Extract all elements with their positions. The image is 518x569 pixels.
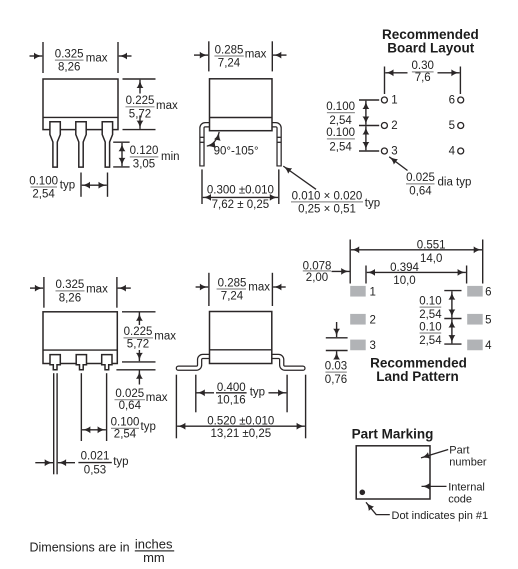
pad width arrow up <box>336 351 338 358</box>
svg-text:min: min <box>161 151 180 163</box>
foot protrusion extension line <box>116 369 155 371</box>
svg-text:0.551: 0.551 <box>417 239 446 251</box>
dimension 0.30/7,6 : extension lines <box>384 67 386 95</box>
svg-text:4: 4 <box>449 146 456 158</box>
svg-text:0.021: 0.021 <box>81 450 110 462</box>
package body side view <box>210 79 273 131</box>
svg-text:max: max <box>156 100 178 112</box>
dimension 0.300 value <box>207 184 274 211</box>
hole 6 <box>458 97 464 103</box>
label Internal code <box>448 481 485 505</box>
dimension 0.285/7,24 max : extension lines <box>208 41 210 71</box>
package base line <box>43 116 118 118</box>
svg-text:Land Pattern: Land Pattern <box>376 369 459 384</box>
svg-text:2,54: 2,54 <box>419 335 442 347</box>
dimension 0.325/8,26 max lower : extension lines <box>43 277 45 308</box>
svg-text:0.285: 0.285 <box>218 277 247 289</box>
svg-text:0.120: 0.120 <box>130 145 159 157</box>
svg-text:0.100: 0.100 <box>111 416 140 428</box>
dimension 0.285/7,24 max lower : value <box>217 277 271 302</box>
dimension 0.100/2,54 typ lower : value <box>111 416 156 440</box>
svg-text:10,16: 10,16 <box>217 394 246 406</box>
pad 6 <box>467 286 483 297</box>
svg-text:2,54: 2,54 <box>32 189 55 201</box>
dimension 0.30/7,6 : arrows <box>385 72 407 74</box>
dimension 0.078/2,00 : value <box>303 260 332 284</box>
package base line side <box>210 117 273 119</box>
svg-text:3: 3 <box>370 340 376 352</box>
dimension 0.394/10,0 : value <box>390 262 419 287</box>
dimension 0.285/7,24 max lower : extension lines <box>208 273 210 306</box>
svg-text:14,0: 14,0 <box>420 253 442 265</box>
dimension 0.300 +-0.010 : double arrow <box>203 196 278 198</box>
svg-text:2,54: 2,54 <box>329 115 352 127</box>
pin number labels left column <box>391 95 397 158</box>
pin 2 front <box>76 122 86 167</box>
svg-text:max: max <box>146 392 168 404</box>
lead cross-section callout 0.010 x 0.020 <box>291 190 380 215</box>
svg-text:typ: typ <box>365 198 380 210</box>
svg-text:Part: Part <box>449 445 469 457</box>
dimension 0.225/5,72 max lower : value <box>124 326 177 350</box>
svg-text:0.100: 0.100 <box>29 175 58 187</box>
pad width tick lines left <box>326 338 348 351</box>
lead angle arc 90-105 <box>207 132 219 146</box>
dimension 0.225/5,72 max : value <box>126 95 178 120</box>
hole 5 <box>458 123 464 129</box>
dimension 0.021/0,53 typ : value <box>78 450 128 476</box>
dimension 0.120/3,05 min : double arrow <box>121 143 123 166</box>
right gull-wing lead band <box>270 356 303 368</box>
dimension 0.520 +-0.010 : double arrow <box>177 425 305 427</box>
svg-text:5,72: 5,72 <box>129 108 151 120</box>
dimension 0.325/8,26 max lower : value <box>56 279 109 304</box>
svg-text:0,25 × 0,51: 0,25 × 0,51 <box>298 204 356 216</box>
hole diameter callout 0.025/0,64 dia typ <box>406 172 471 197</box>
svg-text:Board Layout: Board Layout <box>387 41 475 56</box>
svg-text:1: 1 <box>370 286 376 298</box>
svg-text:0,64: 0,64 <box>119 400 142 412</box>
svg-text:Internal: Internal <box>448 481 485 493</box>
svg-text:0.325: 0.325 <box>56 279 85 291</box>
svg-text:max: max <box>154 330 176 342</box>
package base line side lower <box>210 349 272 351</box>
pad 3 <box>350 340 366 351</box>
svg-text:Dot indicates pin #1: Dot indicates pin #1 <box>392 510 489 522</box>
svg-text:Part Marking: Part Marking <box>352 426 434 441</box>
dimension 0.520 +-0.010 : extension lines <box>175 375 177 439</box>
svg-text:8,26: 8,26 <box>58 62 80 74</box>
left gull-wing lead band <box>178 356 211 368</box>
dimension 0.100/2,54 stack <box>326 101 355 154</box>
leader arrow to dot <box>366 502 390 514</box>
svg-text:0.285: 0.285 <box>215 44 244 56</box>
dimension 0.400/10,16 typ : value <box>216 382 265 406</box>
pin 3 stub with foot <box>102 355 112 370</box>
package body front view lower <box>43 312 117 364</box>
svg-text:0.325: 0.325 <box>55 48 84 60</box>
pad pitch tick lines right <box>444 291 461 345</box>
dimension 0.100/2,54 typ : extension lines <box>80 173 82 197</box>
dimension 0.325/8,26 max : arrows <box>30 55 43 57</box>
svg-text:3: 3 <box>391 146 397 158</box>
svg-text:0.30: 0.30 <box>412 60 434 72</box>
pad width arrow down <box>336 322 338 337</box>
svg-text:0.025: 0.025 <box>406 172 435 184</box>
svg-text:code: code <box>448 493 472 505</box>
pin 2 center extension line <box>80 373 82 441</box>
svg-text:8,26: 8,26 <box>59 292 81 304</box>
package base line lower <box>43 349 117 351</box>
svg-text:typ: typ <box>250 387 265 399</box>
svg-text:0,64: 0,64 <box>409 185 432 197</box>
svg-text:0.100: 0.100 <box>326 101 355 113</box>
dimension 0.225/5,72 max lower : extension lines <box>122 311 156 313</box>
dimension 0.225/5,72 max lower : arrows <box>138 313 140 326</box>
svg-text:0.225: 0.225 <box>124 326 153 338</box>
svg-text:7,62 ± 0,25: 7,62 ± 0,25 <box>212 199 269 211</box>
dimension 0.285/7,24 max : arrows <box>194 54 208 56</box>
dimension 0.400/10,16 typ : extension lines <box>195 375 197 413</box>
svg-text:6: 6 <box>485 286 491 298</box>
label Part number <box>449 445 487 469</box>
svg-text:0.225: 0.225 <box>126 95 155 107</box>
leader arrow internal code <box>422 485 447 487</box>
hole 3 <box>381 148 387 154</box>
dimension 0.025/0,64 max : arrow <box>138 371 140 385</box>
dimension 0.325/8,26 max : value <box>55 48 108 73</box>
dimension 0.400/10,16 typ : arrows <box>197 392 215 394</box>
svg-text:typ: typ <box>113 456 128 468</box>
svg-text:7,24: 7,24 <box>218 58 241 70</box>
dimension 0.285/7,24 max : value <box>214 44 266 69</box>
pad pitch double arrow 5-4 <box>451 319 453 343</box>
svg-text:5,72: 5,72 <box>127 339 149 351</box>
dimension 0.551/14,0 : extension lines <box>349 240 351 284</box>
svg-text:0.520 ±0.010: 0.520 ±0.010 <box>207 416 274 428</box>
svg-text:max: max <box>245 49 267 61</box>
pitch double arrow 1-2 <box>365 101 367 125</box>
dimension 0.551/14,0 : double arrow <box>351 249 482 251</box>
dimension 0.120/3,05 min : value <box>130 145 180 170</box>
leader arrow to hole 3 <box>389 157 407 171</box>
hole 4 <box>458 148 464 154</box>
svg-text:number: number <box>449 456 487 468</box>
dimension 0.021/0,53 typ : arrows <box>35 462 53 464</box>
svg-text:2,54: 2,54 <box>419 309 442 321</box>
svg-text:0.100: 0.100 <box>326 127 355 139</box>
svg-text:Dimensions are in: Dimensions are in <box>30 541 130 555</box>
dimension 0.100/2,54 typ lower : double arrow <box>82 429 106 431</box>
svg-text:2: 2 <box>391 120 397 132</box>
pin 1 dot <box>360 490 366 496</box>
svg-text:4: 4 <box>485 340 492 352</box>
pin 3 center extension line <box>106 373 108 441</box>
pin 1 stub with foot <box>50 355 60 370</box>
svg-text:2,54: 2,54 <box>329 141 352 153</box>
dimension 0.325/8,26 max lower : arrows <box>30 287 43 289</box>
svg-text:dia typ: dia typ <box>438 177 472 189</box>
svg-text:0,76: 0,76 <box>325 374 347 386</box>
hole 1 <box>381 97 387 103</box>
svg-text:2,00: 2,00 <box>306 272 328 284</box>
right lead band <box>271 125 279 167</box>
pad number labels left column <box>370 286 376 352</box>
leader arrow to right lead <box>283 166 316 189</box>
svg-text:13,21 ±0,25: 13,21 ±0,25 <box>210 428 271 440</box>
dimension 0.30/7,6 : value <box>412 60 434 84</box>
pin 1 front <box>50 122 60 167</box>
hole tick lines <box>359 100 379 151</box>
dimension 0.100/2,54 typ : value <box>29 175 75 200</box>
svg-text:6: 6 <box>449 95 455 107</box>
svg-text:7,24: 7,24 <box>221 291 244 303</box>
svg-text:1: 1 <box>391 95 397 107</box>
dimension 0.078 arrow <box>332 270 350 272</box>
svg-text:max: max <box>86 284 108 296</box>
right lead section ticks <box>277 136 281 138</box>
svg-text:typ: typ <box>60 180 75 192</box>
dimension 0.025/0,64 max : value <box>115 388 168 412</box>
svg-text:2: 2 <box>370 314 376 326</box>
svg-text:3,05: 3,05 <box>133 158 155 170</box>
note fraction inches/mm <box>135 536 174 565</box>
dimension 0.03/0,76 : value <box>325 360 347 385</box>
dimension 0.120/3,05 min : extension lines <box>113 141 129 143</box>
dimension 0.394/10,0 : double arrow <box>367 271 466 273</box>
svg-text:0.025: 0.025 <box>115 388 144 400</box>
dimension 0.300 +-0.010 : extension lines <box>201 169 203 204</box>
left lead band <box>202 125 211 167</box>
svg-text:0.03: 0.03 <box>325 360 347 372</box>
pin 1 lead width extension lines <box>53 373 55 474</box>
pad 4 <box>467 340 483 351</box>
pin 2 stub with foot <box>76 355 86 370</box>
svg-text:0,53: 0,53 <box>84 465 106 477</box>
svg-text:0.394: 0.394 <box>390 262 419 274</box>
dimension 0.325/8,26 max : extension lines <box>42 42 44 73</box>
dimension 0.10/2,54 stack <box>419 295 442 346</box>
svg-text:5: 5 <box>449 120 455 132</box>
svg-text:max: max <box>86 53 108 65</box>
pin number labels right column <box>449 95 456 158</box>
heading Recommended Land Pattern <box>370 355 467 384</box>
pad 5 <box>467 314 483 325</box>
svg-text:Recommended: Recommended <box>382 27 479 42</box>
dimension 0.394/10,0 : extension lines <box>365 266 367 284</box>
svg-text:0.10: 0.10 <box>419 321 441 333</box>
package body front view <box>43 79 118 130</box>
svg-text:0.10: 0.10 <box>419 295 441 307</box>
pad 1 <box>350 286 366 297</box>
svg-text:typ: typ <box>141 421 156 433</box>
pitch double arrow 2-3 <box>365 126 367 150</box>
dimension 0.285/7,24 max lower : arrows <box>196 286 209 288</box>
heading Recommended Board Layout <box>382 27 479 56</box>
svg-text:0.010 × 0.020: 0.010 × 0.020 <box>292 190 363 202</box>
dimension 0.520 value <box>207 416 274 440</box>
dimension 0.100/2,54 typ : double arrow <box>82 184 107 186</box>
hole 2 <box>381 123 387 129</box>
svg-text:90°-105°: 90°-105° <box>214 145 259 157</box>
svg-text:mm: mm <box>143 550 165 565</box>
dimension 0.225/5,72 max : arrows <box>139 80 141 94</box>
pad number labels right column <box>485 286 492 352</box>
svg-text:2,54: 2,54 <box>114 428 137 440</box>
pad pitch double arrow 6-5 <box>451 291 453 318</box>
leader arrow part number <box>421 450 448 458</box>
pad 2 <box>350 314 366 325</box>
package body side view lower <box>210 312 272 364</box>
pin 3 front <box>102 122 112 167</box>
dimension 0.551/14,0 : value <box>417 239 446 264</box>
dimension 0.225/5,72 max : extension lines <box>123 78 156 80</box>
svg-text:0.300 ±0.010: 0.300 ±0.010 <box>207 184 274 196</box>
svg-text:7,6: 7,6 <box>415 72 431 84</box>
svg-text:max: max <box>248 282 270 294</box>
part outline rectangle <box>356 446 430 499</box>
svg-text:5: 5 <box>485 314 491 326</box>
left lead section ticks <box>200 136 204 138</box>
svg-text:10,0: 10,0 <box>393 275 415 287</box>
